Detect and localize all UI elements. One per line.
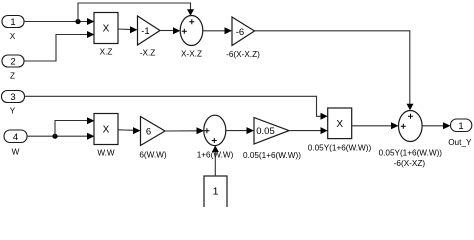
wire port2 to product X.Z input2 <box>24 31 95 61</box>
product block X.Z <box>94 13 118 57</box>
svg-text:-6(X-X.Z): -6(X-X.Z) <box>226 50 260 59</box>
constant block 1 <box>204 176 227 208</box>
wire final sum to outport <box>422 122 450 129</box>
wire product2 to final sum <box>352 122 399 129</box>
wire product X.Z to gain -1 <box>118 26 138 33</box>
gain -1 <box>138 16 161 58</box>
inport 2 Z <box>2 55 24 81</box>
svg-text:1: 1 <box>213 186 219 198</box>
svg-text:3: 3 <box>10 92 15 103</box>
wire gain -1 to sum1 <box>160 27 180 34</box>
wire port3 to product2 input1 <box>25 96 328 120</box>
svg-text:6: 6 <box>146 126 151 137</box>
inport 4 W <box>4 130 27 157</box>
wire port4 to product W.W input2 <box>27 133 95 140</box>
wire gain -6 over and down to final sum top <box>255 31 414 111</box>
svg-text:2: 2 <box>10 57 15 68</box>
svg-text:6(W.W): 6(W.W) <box>139 151 167 160</box>
sum block X-X.Z <box>180 16 203 59</box>
svg-text:0.05: 0.05 <box>256 126 275 137</box>
gain 6 <box>139 117 167 160</box>
svg-text:X: X <box>10 32 16 41</box>
wire product W.W to gain 6 <box>118 127 141 134</box>
gain -6 <box>226 17 260 59</box>
svg-text:X: X <box>103 24 110 35</box>
wire branch junction up to product W.W input1 <box>55 117 95 136</box>
wire port1 to product X.Z input1 <box>24 18 95 25</box>
svg-text:-6: -6 <box>236 27 244 38</box>
gain 0.05 <box>243 118 301 161</box>
wire constant 1 up to sum2 bottom <box>212 146 219 177</box>
svg-text:X-X.Z: X-X.Z <box>181 50 202 59</box>
product block W.W <box>94 114 118 158</box>
node junction on X wire <box>75 19 80 24</box>
svg-text:-X.Z: -X.Z <box>140 49 155 58</box>
svg-text:0.05(1+6(W.W)): 0.05(1+6(W.W)) <box>243 151 301 160</box>
svg-text:1: 1 <box>10 17 15 28</box>
wire branch junction up and over to sum1 top <box>78 3 194 22</box>
svg-text:0.05Y(1+6(W.W)): 0.05Y(1+6(W.W)) <box>379 149 443 158</box>
product block 0.05Y(1+6(W.W)) <box>308 108 372 153</box>
svg-text:X: X <box>336 119 343 130</box>
node junction on W wire <box>52 134 57 139</box>
wire gain 6 to sum2 <box>165 127 204 134</box>
svg-text:-1: -1 <box>141 26 149 37</box>
svg-text:X.Z: X.Z <box>100 48 113 57</box>
sum block 1+6(W.W) <box>197 115 234 159</box>
svg-text:W: W <box>12 148 20 157</box>
svg-text:0.05Y(1+6(W.W)): 0.05Y(1+6(W.W)) <box>308 144 372 153</box>
svg-text:Z: Z <box>10 72 15 81</box>
inport 1 X <box>2 16 24 42</box>
final sum block 0.05Y(1+6(W.W))-6(X-XZ) <box>379 111 443 169</box>
svg-text:1: 1 <box>458 121 463 132</box>
wire gain 0.05 to product2 input2 <box>289 127 328 134</box>
wire sum1 to gain -6 <box>203 27 232 34</box>
wire sum2 to gain 0.05 <box>226 127 254 134</box>
inport 3 Y <box>2 91 25 116</box>
svg-text:W.W: W.W <box>97 149 115 158</box>
svg-text:Out_Y: Out_Y <box>448 138 472 147</box>
svg-text:4: 4 <box>13 132 18 143</box>
svg-text:X: X <box>103 125 110 136</box>
svg-text:-6(X-XZ): -6(X-XZ) <box>394 159 426 168</box>
outport 1 Out_Y <box>448 119 472 147</box>
svg-text:Y: Y <box>10 107 16 116</box>
